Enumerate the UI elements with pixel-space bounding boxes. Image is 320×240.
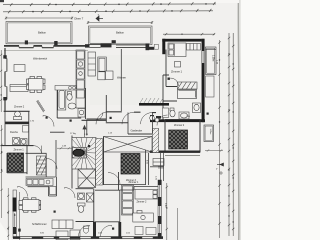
kitchen counter column — [76, 50, 85, 108]
stair right wall — [103, 137, 105, 186]
bath 1 toilet — [67, 92, 72, 101]
svg-text:Zimmer 2: Zimmer 2 — [174, 123, 185, 127]
balcony 1 — [6, 22, 72, 44]
bath top-right walls — [163, 75, 177, 120]
room 1 wardrobe — [187, 44, 201, 51]
door arc bath1 — [95, 112, 103, 120]
window annex box lower — [206, 76, 215, 97]
wall corner dark mid — [146, 44, 155, 50]
wall below ankleide2 — [150, 166, 164, 168]
zimmer1 lower walls — [7, 146, 27, 175]
wall right of bath1 — [87, 95, 107, 122]
closet under railing — [178, 90, 197, 99]
bath top-right sink — [179, 112, 189, 119]
mid-left walls — [26, 140, 57, 177]
electrical symbol b6 — [88, 145, 90, 147]
wardrobe column right of kitchen — [88, 52, 96, 76]
bath lower-center shower — [87, 193, 94, 202]
door arc corridor low — [108, 173, 120, 185]
svg-text:Garderobe: Garderobe — [131, 129, 143, 133]
stairwell diag hatch band right — [153, 129, 159, 153]
mini dim line right mid — [205, 149, 223, 151]
room 1 inner wall segment — [166, 50, 177, 87]
dim chain right outer 1 — [228, 33, 230, 236]
cabinet lower left — [56, 230, 80, 240]
left outer wall upper with windows — [5, 48, 7, 112]
corridor wall right of stair — [118, 172, 120, 190]
corridor door arc 4 — [157, 115, 168, 126]
dim line right inner — [218, 40, 220, 238]
window post b1 — [112, 40, 116, 43]
door arc y146 — [34, 146, 42, 154]
room 1 top wall — [162, 39, 204, 42]
x-braced box top — [104, 137, 153, 153]
svg-text:Wohnen: Wohnen — [117, 76, 127, 80]
closet shelves column — [122, 185, 134, 215]
stair outline — [72, 138, 96, 170]
dusche sink 2 — [21, 139, 28, 146]
bath lower-center walls — [76, 189, 95, 222]
small cabinets bottom right — [135, 227, 156, 235]
corridor wall stub dark — [118, 222, 121, 237]
electrical symbol b2 — [70, 120, 72, 122]
window box right mid — [153, 159, 164, 166]
dark hatch block right — [169, 130, 188, 149]
paper tone patches — [10, 55, 160, 230]
wall right of center block — [146, 150, 149, 185]
corridor top wall segments — [106, 111, 156, 114]
room 1 bed — [168, 43, 186, 57]
window post L1 — [3, 55, 6, 58]
x-braced box lower — [78, 169, 96, 188]
wall face line below room2 right — [165, 154, 200, 156]
sofa left — [10, 85, 28, 92]
bath top-right shower — [193, 103, 201, 113]
bed bottom-right — [135, 190, 158, 200]
dim line right of lower room — [166, 183, 168, 240]
svg-text:1.38m: 1.38m — [212, 55, 215, 61]
kitchen hob top — [55, 86, 76, 91]
corridor door arc 3 — [141, 113, 153, 125]
left wall lower mid — [4, 111, 6, 146]
inner wall face line lower-left — [18, 192, 21, 240]
sofa lower left — [52, 220, 73, 229]
railing hatch box — [178, 82, 198, 89]
dusche toilet — [14, 111, 22, 119]
svg-text:1.85m: 1.85m — [209, 129, 211, 135]
dim line left upper — [1, 125, 2, 218]
dimension chain top line 2 — [3, 9, 213, 13]
dimension chain top line 1 — [3, 2, 216, 6]
bath lower-center toilet — [78, 203, 86, 212]
walls mid bottom left — [49, 177, 57, 196]
dim chain right outer 2 — [232, 33, 234, 236]
svg-text:Balkon: Balkon — [116, 31, 124, 35]
hall door arc left — [43, 116, 54, 127]
dusche dark band — [5, 122, 29, 125]
electrical symbol b5 — [207, 113, 209, 115]
zimmer2 bottom wall — [4, 110, 30, 112]
bath 1 walls — [57, 88, 85, 119]
corridor bottom wall segment — [106, 122, 128, 124]
dining table 2 with chairs — [19, 198, 41, 212]
svg-text:4.50: 4.50 — [164, 203, 167, 208]
stair left wall — [71, 136, 73, 189]
wall below room2 right — [158, 153, 164, 181]
window box mid — [154, 44, 158, 49]
dusche sink 1 — [13, 138, 20, 145]
door box bath top-right — [163, 108, 169, 118]
bath 1 sink — [68, 103, 76, 109]
sideboard left — [14, 65, 25, 72]
wc wall stub dark — [93, 222, 96, 237]
svg-text:17 Stg: 17 Stg — [70, 132, 77, 135]
dim arrow 7 right — [216, 163, 224, 171]
dim line left top — [1, 50, 2, 112]
svg-text:Zimmer 2: Zimmer 2 — [137, 201, 147, 204]
wc toilet bottom — [83, 226, 88, 233]
window post a2 — [54, 41, 57, 45]
balcony 1 dim line — [5, 17, 73, 20]
bath bottom wall dark — [150, 119, 205, 122]
room2 right outline — [165, 120, 200, 153]
main top wall line section B — [85, 44, 146, 48]
bath 1 bidet — [78, 109, 85, 118]
small stair hatch mid-left — [37, 156, 47, 175]
bath top-right toilet — [170, 108, 175, 117]
arrow mark north — [96, 13, 103, 21]
page seam — [237, 0, 240, 240]
top white strip — [0, 0, 239, 3]
corridor walls bottom center — [95, 190, 120, 222]
desk bottom-right — [133, 211, 154, 223]
right outer wall lower with windows — [158, 180, 161, 239]
svg-text:Schlafzimmer: Schlafzimmer — [32, 222, 47, 226]
svg-text:Zimmer 1: Zimmer 1 — [14, 148, 25, 152]
window annex box upper — [206, 47, 217, 75]
svg-text:Zimmer 1: Zimmer 1 — [129, 181, 139, 184]
window post L2 — [3, 97, 6, 100]
corridor door arc 1 — [96, 112, 109, 125]
garderobe wall — [128, 133, 152, 135]
counter row lower apartment — [26, 179, 53, 186]
svg-text:Oben 7: Oben 7 — [74, 17, 84, 21]
electrical symbol b7 — [54, 211, 56, 213]
vertical text box right — [204, 125, 214, 142]
flur door arc — [47, 159, 58, 170]
main top wall line section A — [4, 46, 89, 51]
electrical symbol b4 — [168, 78, 170, 80]
washer box dusche — [23, 126, 29, 133]
wall y184 under xbox — [104, 184, 146, 186]
dining table with chairs — [27, 77, 46, 93]
bottom wall main — [13, 236, 163, 239]
coffee tables — [98, 71, 113, 80]
door arc bottom 1 — [79, 225, 90, 236]
right blank page area — [239, 0, 320, 240]
garderobe side walls — [128, 113, 153, 135]
room 1 door arc — [171, 78, 179, 86]
stair treads fan — [72, 138, 96, 170]
left dim ticks mid — [1, 129, 3, 191]
dim line left lower — [8, 188, 9, 240]
left outer wall lower with windows — [13, 190, 17, 238]
door leaf diagonal — [37, 100, 45, 112]
room 1 left wall — [162, 39, 165, 54]
dusche walls — [5, 111, 29, 145]
lower-left door arc — [18, 187, 28, 197]
sofa 2 — [98, 57, 107, 73]
ankleide2 top wall dark — [139, 103, 169, 106]
bath 1 tub — [58, 89, 66, 110]
wall dark blob lower-left — [13, 227, 16, 231]
room 1 table — [175, 62, 181, 68]
top-left corner speck — [0, 0, 4, 2]
svg-text:Zimmer 2: Zimmer 2 — [14, 105, 25, 109]
wall y132 left of stair — [50, 131, 65, 133]
plus mark right — [219, 171, 223, 175]
door arc bottom 2 — [101, 225, 112, 236]
electrical symbol b8 — [112, 228, 114, 230]
wall segment y120 — [82, 119, 107, 121]
left dim ticks lower — [7, 195, 9, 237]
room2 right bottom wall — [150, 151, 200, 153]
corridor door arc 2 — [122, 112, 134, 124]
svg-text:Wohnbereich: Wohnbereich — [33, 57, 48, 61]
dim line above room1 — [163, 33, 215, 35]
svg-text:Balkon: Balkon — [38, 31, 46, 35]
svg-text:Zimmer 1: Zimmer 1 — [171, 70, 183, 74]
electrical symbol b3 — [110, 117, 112, 119]
svg-text:Dusche: Dusche — [10, 131, 19, 134]
flur dim line — [57, 147, 73, 149]
wall bottom-left room top — [28, 186, 49, 188]
short dim line x177 — [177, 208, 179, 240]
wall y190 corridor bottom — [95, 189, 120, 191]
bottom-left white wedge — [0, 222, 12, 240]
electrical symbol b1 — [46, 117, 48, 119]
balcony 2 — [89, 26, 153, 45]
door arc mid bottom — [65, 188, 76, 199]
bottom-right room walls — [120, 187, 158, 191]
interior wall vertical center — [120, 49, 122, 111]
small dark marks left of room2 — [150, 115, 161, 119]
room 1 right wall — [202, 39, 205, 122]
wall y145 left — [1, 145, 34, 147]
wc sink corridor — [150, 116, 159, 122]
left dim ticks upper — [0, 54, 2, 101]
wardrobe mid bottom — [50, 187, 57, 195]
stair newel dark — [73, 148, 87, 159]
ankleide2 hatch band above — [140, 98, 163, 103]
bath lower-center sink — [78, 193, 85, 200]
stair arrow up — [83, 126, 86, 138]
corridor wall x86 — [86, 120, 88, 136]
balcony 2 dim line — [87, 21, 153, 24]
dark hatch block center — [121, 154, 140, 175]
window post a1 — [25, 40, 28, 44]
diag hatch band stair — [96, 139, 103, 186]
dark hatch block left — [8, 153, 24, 172]
